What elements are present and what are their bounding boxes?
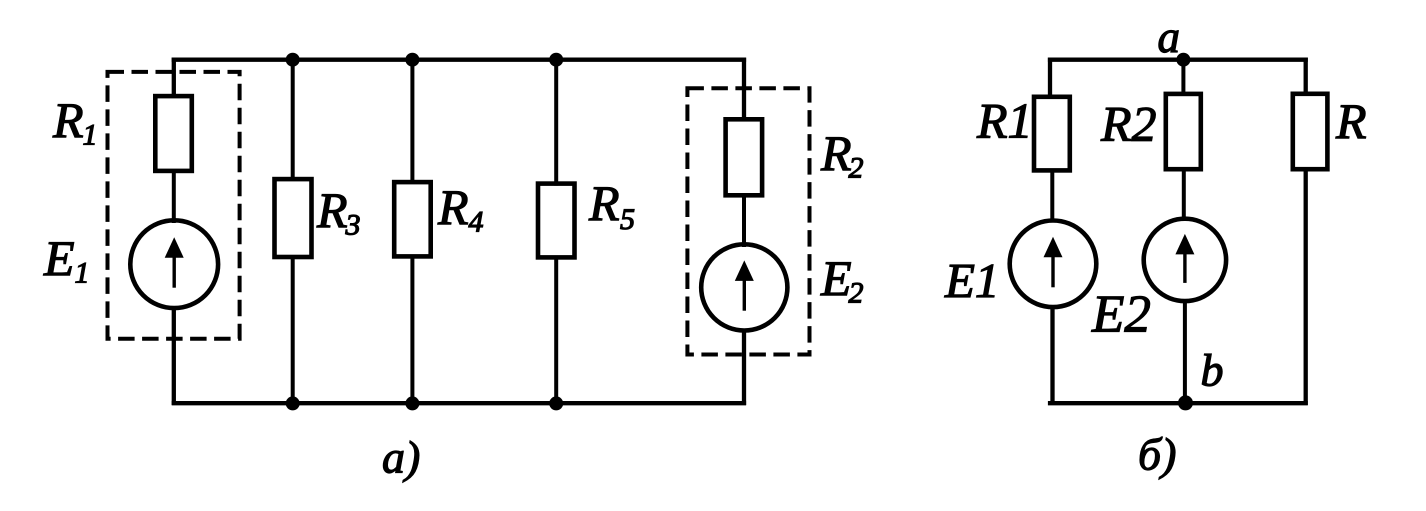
label R5 <box>588 175 635 236</box>
wire R to bottom bus (circuit b) <box>1304 168 1308 405</box>
label R1 (circuit a) <box>52 92 98 152</box>
wire bottom stub R4 <box>410 255 414 403</box>
label R4 <box>437 179 484 239</box>
svg-text:E: E <box>43 230 75 286</box>
node a junction dot <box>1176 53 1190 67</box>
resistor R2 (circuit b) <box>1166 94 1201 169</box>
wire bottom bus (circuit a) <box>172 401 746 405</box>
wire R1 to E1 <box>172 171 176 223</box>
wire right branch top vertical (circuit b) <box>1304 58 1308 96</box>
svg-text:a: a <box>1158 12 1181 62</box>
svg-text:R: R <box>588 175 620 231</box>
junction node top of R3 branch <box>286 53 300 67</box>
svg-text:а): а) <box>382 432 420 483</box>
resistor R1 (circuit a) <box>155 96 192 171</box>
svg-text:b: b <box>1201 345 1224 396</box>
resistor R1 (circuit b) <box>1034 97 1070 171</box>
svg-text:2: 2 <box>849 152 864 185</box>
wire bottom stub R5 <box>554 256 558 403</box>
resistor R4 <box>394 182 431 256</box>
wire node a to R2 (circuit b) <box>1181 60 1185 96</box>
svg-text:R: R <box>316 182 348 238</box>
wire E2 to node b (circuit b) <box>1183 299 1187 403</box>
junction node bottom of R4 branch <box>405 396 419 410</box>
wire R2 to E2 <box>742 194 746 247</box>
wire top stub R3 <box>291 60 295 181</box>
voltage source E1 (circuit b): circle with up arrow <box>1010 220 1097 307</box>
resistor R3 <box>275 179 312 257</box>
svg-text:E1: E1 <box>944 253 999 308</box>
wire left branch top vertical <box>172 58 176 98</box>
label E2 (circuit a) <box>820 250 864 310</box>
svg-text:R: R <box>437 179 469 235</box>
svg-text:E2: E2 <box>1091 286 1151 344</box>
junction node top of R5 branch <box>549 53 563 67</box>
voltage source E2 (circuit a): circle with up arrow <box>701 244 787 330</box>
voltage source E1 (circuit a): circle with up arrow <box>130 220 218 308</box>
svg-text:3: 3 <box>345 209 361 242</box>
wire R1 to E1 (circuit b) <box>1050 169 1054 222</box>
wire E1 to bottom bus (circuit b) <box>1050 306 1054 405</box>
wire top stub R5 <box>554 60 558 186</box>
wire top bus (circuit a) <box>172 58 746 62</box>
label R2 (circuit a) <box>820 125 864 185</box>
node b junction dot <box>1178 395 1193 410</box>
svg-text:R: R <box>1335 93 1367 149</box>
label E1 (circuit a) <box>43 230 90 290</box>
wire R2 to E2 (circuit b) <box>1182 167 1186 220</box>
wire E2 to bottom bus <box>742 329 746 405</box>
wire bottom bus (circuit b) <box>1048 401 1308 405</box>
wire right branch top vertical <box>742 58 746 121</box>
voltage source E2 (circuit b): circle with up arrow <box>1144 219 1226 301</box>
wire top stub R4 <box>410 60 414 184</box>
wire left branch top vertical (circuit b) <box>1048 58 1052 99</box>
wire bottom stub R3 <box>291 256 295 403</box>
svg-text:R2: R2 <box>1100 96 1157 152</box>
svg-text:R1: R1 <box>976 93 1033 149</box>
junction node bottom of R3 branch <box>286 396 300 410</box>
svg-text:R: R <box>52 92 84 148</box>
resistor R (circuit b) <box>1293 94 1328 169</box>
resistor R2 (circuit a) <box>726 119 763 195</box>
resistor R5 <box>538 184 575 258</box>
svg-text:R: R <box>820 125 852 181</box>
dashed box around R1,E1 (equivalent source 1) <box>108 72 240 339</box>
junction node top of R4 branch <box>405 53 419 67</box>
svg-text:E: E <box>820 250 852 306</box>
wire top bus (circuit b) <box>1048 58 1308 62</box>
svg-text:1: 1 <box>83 119 98 152</box>
svg-text:1: 1 <box>75 257 90 290</box>
svg-text:4: 4 <box>469 206 484 239</box>
dashed box around R2,E2 (equivalent source 2) <box>687 88 809 354</box>
svg-text:б): б) <box>1138 429 1176 480</box>
junction node bottom of R5 branch <box>549 396 563 410</box>
label R3 <box>316 182 361 242</box>
svg-text:2: 2 <box>849 277 864 310</box>
wire E1 to bottom bus <box>172 307 176 405</box>
svg-text:5: 5 <box>620 203 635 236</box>
